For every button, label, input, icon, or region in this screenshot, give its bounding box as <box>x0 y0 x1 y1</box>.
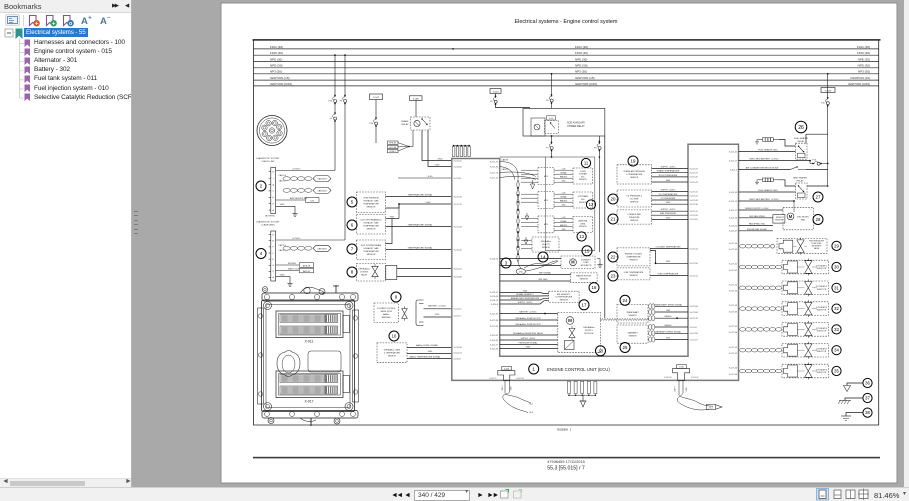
visctronic fan 28 <box>783 207 813 230</box>
ground node 36 <box>863 378 872 387</box>
panel list icon <box>6 15 20 26</box>
schematic frame <box>254 41 879 426</box>
sensor 6 SCR upstream temperature <box>347 220 357 230</box>
svg-text:POWER RELAY: POWER RELAY <box>567 125 585 128</box>
svg-text:X-017-46: X-017-46 <box>490 166 499 168</box>
svg-text:X-011-86: X-011-86 <box>454 276 463 278</box>
svg-text:X-017-42: X-017-42 <box>729 284 738 286</box>
socket 2 ground <box>276 205 295 207</box>
svg-text:X-017-46: X-017-46 <box>729 368 738 370</box>
ECU bottom bracket <box>262 411 358 419</box>
supply connector box X-042 <box>370 94 383 100</box>
svg-text:FLAP: FLAP <box>583 261 589 264</box>
svg-text:ENGINE FAN SIGNAL: ENGINE FAN SIGNAL <box>747 228 768 231</box>
svg-text:SENSOR: SENSOR <box>367 229 376 231</box>
svg-text:CAN H: CAN H <box>501 385 504 391</box>
SCR box right edge long drop <box>604 136 606 318</box>
wire X-080 to crank relay <box>415 100 417 117</box>
svg-text:EXHAUST GAS: EXHAUST GAS <box>364 200 379 203</box>
svg-text:X-026-12: X-026-12 <box>490 258 499 260</box>
X-016 service plug <box>502 366 512 370</box>
ECU block outline (U shape) <box>452 144 739 380</box>
svg-text:SENSOR: SENSOR <box>630 177 639 179</box>
svg-text:COOLANT CONTROL: COOLANT CONTROL <box>377 307 396 310</box>
injector cylinder 5 (34) <box>740 348 746 352</box>
svg-text:X-017-44: X-017-44 <box>690 248 699 250</box>
svg-text:X-017-07: X-017-07 <box>690 339 699 341</box>
svg-text:KCL-30: KCL-30 <box>389 147 397 149</box>
svg-text:FUEL TEMPERATURE: FUEL TEMPERATURE <box>624 271 644 274</box>
svg-text:K-30: K-30 <box>428 176 433 178</box>
connector box X-080 <box>410 96 423 101</box>
braid arrow terminal <box>707 404 716 409</box>
svg-text:X-011-41: X-011-41 <box>729 151 738 153</box>
NOx outer box and supply rail <box>500 156 546 158</box>
braid taps to sensors <box>521 169 538 171</box>
svg-text:BATTERY +12VDC: BATTERY +12VDC <box>519 310 537 313</box>
svg-text:CAN 2 L: CAN 2 L <box>279 249 286 252</box>
svg-text:HEATING): HEATING) <box>382 316 391 319</box>
svg-text:X-011-27: X-011-27 <box>490 344 499 346</box>
svg-text:WIF SIGNAL: WIF SIGNAL <box>539 271 552 274</box>
node circle 2 <box>256 181 266 191</box>
svg-text:ENGINE CONTROL UNIT (ECU): ENGINE CONTROL UNIT (ECU) <box>547 367 610 372</box>
svg-text:NPE (30): NPE (30) <box>270 57 282 61</box>
svg-text:TEMPERATURE: TEMPERATURE <box>363 203 379 206</box>
injector cylinder 6 (35) <box>740 369 746 373</box>
svg-text:ECU: ECU <box>544 224 549 226</box>
svg-text:(NH3): (NH3) <box>580 223 585 225</box>
svg-text:SENSOR: SENSOR <box>579 226 587 228</box>
sensor 20 oil pressure temp <box>608 194 618 204</box>
svg-text:X-017-40: X-017-40 <box>729 243 738 245</box>
svg-text:X-011-40: X-011-40 <box>454 347 463 349</box>
svg-text:AIR HUMIDITY: AIR HUMIDITY <box>557 293 571 296</box>
svg-text:NON-PREMIUM: NON-PREMIUM <box>363 198 378 200</box>
svg-text:16: 16 <box>592 285 597 290</box>
svg-text:NPE (30): NPE (30) <box>858 57 870 61</box>
svg-text:VALVE: VALVE <box>814 247 820 250</box>
svg-text:TEMPERATURE SIGNAL: TEMPERATURE SIGNAL <box>408 246 434 249</box>
svg-text:X-011-85: X-011-85 <box>454 166 463 168</box>
svg-text:SIGNAL: SIGNAL <box>560 171 566 174</box>
svg-text:X-017-63: X-017-63 <box>729 311 738 313</box>
relay output wires to ECU pins <box>422 130 452 161</box>
svg-text:AdBlue: AdBlue <box>383 313 389 316</box>
svg-text:AMBIENT AIR TEMPERATURE: AMBIENT AIR TEMPERATURE <box>511 297 540 300</box>
svg-text:UCM-2: UCM-2 <box>390 151 397 153</box>
svg-text:GND: GND <box>428 351 433 353</box>
svg-text:CRANKSHAFT: CRANKSHAFT <box>626 311 640 314</box>
svg-text:37: 37 <box>865 396 870 401</box>
svg-text:X-017-45: X-017-45 <box>690 177 699 179</box>
svg-text:IGNITION (15): IGNITION (15) <box>575 76 595 80</box>
svg-text:KPS-32: KPS-32 <box>389 143 397 145</box>
supply connector box X-048 <box>821 88 835 93</box>
svg-text:X-017-65: X-017-65 <box>729 353 738 355</box>
svg-text:GND: GND <box>390 216 395 218</box>
svg-text:DEF/AdBlue: DEF/AdBlue <box>358 268 370 271</box>
svg-text:X-026-42: X-026-42 <box>490 292 499 294</box>
svg-text:FAN SPEED GND: FAN SPEED GND <box>749 223 766 226</box>
svg-text:NOx: NOx <box>581 176 585 178</box>
svg-text:+: + <box>88 15 92 22</box>
svg-text:X-074-B: X-074-B <box>454 178 462 180</box>
svg-text:+12VDC: +12VDC <box>292 238 301 240</box>
bookmark icon green <box>47 16 57 28</box>
svg-text:SCR UPSTREAM/NOx: SCR UPSTREAM/NOx <box>360 219 382 222</box>
svg-text:M: M <box>568 318 572 323</box>
svg-text:TEMPERATURE: TEMPERATURE <box>363 250 379 253</box>
svg-text:VALVE: VALVE <box>361 274 368 277</box>
svg-text:X-017-19: X-017-19 <box>690 318 699 320</box>
svg-text:24: 24 <box>623 298 628 303</box>
svg-text:DEF/AdBlue REVERTING VALVE: DEF/AdBlue REVERTING VALVE <box>513 332 544 335</box>
svg-text:X-017-60: X-017-60 <box>729 249 738 251</box>
svg-text:X-017-98: X-017-98 <box>690 333 699 335</box>
svg-text:CAN BUS: CAN BUS <box>317 189 327 192</box>
svg-text:CHD: CHD <box>435 164 440 166</box>
svg-text:1: 1 <box>532 367 535 373</box>
svg-text:23: 23 <box>611 274 616 279</box>
svg-text:DEF/AdBlue PUMP MOTOR: DEF/AdBlue PUMP MOTOR <box>515 323 541 326</box>
svg-text:PRESSURE SIGNAL: PRESSURE SIGNAL <box>519 341 539 344</box>
title rule <box>253 39 881 40</box>
ground node 37 chassis <box>863 393 872 402</box>
svg-text:GND: GND <box>666 261 671 263</box>
injector cylinder 3 (32) <box>740 307 746 311</box>
node circle 14 with braid to supply module <box>538 252 548 262</box>
svg-text:Electrical systems - Engine co: Electrical systems - Engine control syst… <box>514 19 617 25</box>
svg-text:DEF/AdBlue: DEF/AdBlue <box>583 326 595 329</box>
svg-text:SUPPLY +5VDC: SUPPLY +5VDC <box>661 190 676 192</box>
ECU body <box>262 300 355 412</box>
svg-text:X-017-26: X-017-26 <box>690 215 699 217</box>
svg-text:9015E666 2: 9015E666 2 <box>557 429 572 432</box>
svg-text:FUEL HEATER: FUEL HEATER <box>794 137 809 140</box>
sensor 23 fuel temperature <box>608 271 618 281</box>
svg-text:X-017-47: X-017-47 <box>690 168 699 170</box>
svg-text:OIL TEMP: OIL TEMP <box>630 198 639 200</box>
wire page background <box>221 3 897 483</box>
svg-text:F101 (30): F101 (30) <box>575 45 588 49</box>
svg-text:AdBlue LEVEL SIGNAL: AdBlue LEVEL SIGNAL <box>416 344 439 347</box>
svg-text:UPSTREAM: UPSTREAM <box>578 195 588 198</box>
svg-text:X-017-46: X-017-46 <box>516 378 523 380</box>
svg-text:10: 10 <box>392 334 397 339</box>
svg-text:SENSOR: SENSOR <box>542 247 551 249</box>
svg-text:BATTERY +12VDC: BATTERY +12VDC <box>428 305 446 308</box>
ECU right flange <box>353 310 359 402</box>
svg-text:CAMSHAFT SPEED SIGNAL: CAMSHAFT SPEED SIGNAL <box>655 330 682 333</box>
svg-text:INJECTOR: INJECTOR <box>817 372 827 374</box>
svg-text:32: 32 <box>834 306 839 311</box>
svg-text:12: 12 <box>589 202 594 207</box>
svg-text:AIR CLEANER RESTRICTION SW: AIR CLEANER RESTRICTION SW <box>746 166 778 169</box>
svg-text:CAN LO: CAN LO <box>502 168 510 171</box>
svg-text:F100 (30): F100 (30) <box>270 51 283 55</box>
diagnostic plug near block2 <box>677 365 687 369</box>
svg-text:X-017-13: X-017-13 <box>490 172 499 174</box>
svg-text:F100 (30): F100 (30) <box>575 51 588 55</box>
svg-text:GND: GND <box>523 290 528 292</box>
svg-text:CMD FAN SPEED: CMD FAN SPEED <box>749 215 766 218</box>
sensor 19 intake air pressure <box>628 156 638 166</box>
svg-text:(CASE/LINE): (CASE/LINE) <box>262 223 275 226</box>
svg-text:RELAY: RELAY <box>798 140 805 143</box>
svg-text:SENSOR: SENSOR <box>367 207 376 209</box>
svg-text:TEMPERATURE: TEMPERATURE <box>363 225 379 228</box>
svg-text:RAIL PRESSURE: RAIL PRESSURE <box>660 212 677 215</box>
svg-text:FUEL HEATER GND: FUEL HEATER GND <box>758 189 778 192</box>
wire drop F101 right with fuse F10 <box>827 74 829 93</box>
svg-text:36: 36 <box>865 381 870 386</box>
svg-text:CAN HI: CAN HI <box>502 158 509 161</box>
svg-text:SIGNAL: SIGNAL <box>560 220 566 223</box>
bookmark tree <box>0 28 131 478</box>
svg-text:IGNITION (0/15): IGNITION (0/15) <box>575 82 597 86</box>
svg-text:M: M <box>789 214 793 219</box>
svg-text:X-017-62: X-017-62 <box>690 219 699 221</box>
svg-text:+: + <box>35 21 39 27</box>
svg-text:28: 28 <box>816 217 821 222</box>
svg-text:IGNITION (0/15): IGNITION (0/15) <box>270 82 292 86</box>
svg-text:TEMPERATURE SIGNAL: TEMPERATURE SIGNAL <box>408 193 434 196</box>
svg-text:X-017-49: X-017-49 <box>454 226 463 228</box>
svg-text:SENSOR: SENSOR <box>580 279 589 281</box>
sensor 16 water in fuel <box>571 273 598 282</box>
X-016 CAN wires down <box>504 380 506 392</box>
buzzer wire and box <box>276 264 299 266</box>
injector cylinder 1 (30) <box>740 265 746 269</box>
svg-text:X-017-14: X-017-14 <box>490 177 499 179</box>
svg-text:MODULE: MODULE <box>585 333 595 335</box>
svg-text:WIF GND: WIF GND <box>538 279 548 281</box>
svg-text:X-017-31: X-017-31 <box>690 191 699 193</box>
svg-text:X-017-90: X-017-90 <box>664 377 671 379</box>
svg-text:21: 21 <box>611 217 616 222</box>
svg-text:20: 20 <box>611 197 616 202</box>
svg-text:DOSING: DOSING <box>360 272 368 274</box>
svg-text:GND: GND <box>280 204 285 206</box>
ECU connector X-011 <box>276 311 343 338</box>
svg-text:NOx: NOx <box>581 199 585 201</box>
svg-text:DEF/AdBlue PUMP MOTOR: DEF/AdBlue PUMP MOTOR <box>515 317 541 320</box>
svg-text:EXHAUST GAS: EXHAUST GAS <box>364 247 379 250</box>
svg-text:CRANK: CRANK <box>401 120 409 123</box>
svg-text:INJECTOR: INJECTOR <box>817 268 827 270</box>
sensor 21 common rail pressure <box>608 214 618 224</box>
svg-text:AMMONIA: AMMONIA <box>579 220 588 223</box>
svg-text:X-017-3: X-017-3 <box>454 315 462 317</box>
sensor 7 SCR downstream temperature <box>347 244 357 254</box>
svg-text:& TEMPERATURE: & TEMPERATURE <box>555 296 572 299</box>
node circle 4 <box>256 249 266 259</box>
svg-text:SIGNAL: SIGNAL <box>560 195 566 198</box>
svg-text:–: – <box>107 14 111 21</box>
ground arrow under sensor column <box>532 180 534 184</box>
svg-text:X-011-33: X-011-33 <box>729 192 738 194</box>
svg-text:& TEMPERATURE: & TEMPERATURE <box>626 173 643 176</box>
supply connector box X-044 <box>490 89 501 94</box>
svg-text:SUPPLY +5VDC: SUPPLY +5VDC <box>518 302 533 304</box>
svg-text:NP3 (30): NP3 (30) <box>575 70 587 74</box>
svg-text:INJECTOR: INJECTOR <box>817 289 827 291</box>
ECU left flange <box>258 308 264 404</box>
DEF supply module 18 <box>558 312 601 352</box>
svg-text:FAN: FAN <box>801 219 805 222</box>
vertical CAN braid <box>517 180 518 262</box>
svg-text:X-017-37: X-017-37 <box>690 173 699 175</box>
sensor 17 air humidity temperature <box>549 291 580 302</box>
svg-text:(BUYERS): (BUYERS) <box>265 216 275 218</box>
svg-text:CHD: CHD <box>435 314 440 316</box>
+12VDC wire <box>276 170 335 172</box>
svg-text:X-017-11: X-017-11 <box>690 211 699 213</box>
svg-text:X-026-46: X-026-46 <box>490 296 499 298</box>
svg-text:X-017-8: X-017-8 <box>690 327 698 329</box>
svg-text:X-017-41: X-017-41 <box>729 264 738 266</box>
svg-text:X-044: X-044 <box>493 91 500 93</box>
svg-text:SENSOR SUPPLY +5VDC: SENSOR SUPPLY +5VDC <box>745 208 769 210</box>
svg-text:CAN BUS: CAN BUS <box>317 247 327 250</box>
round diagnostic connector <box>257 116 287 146</box>
svg-text:FUEL HEATER GND: FUEL HEATER GND <box>758 148 778 151</box>
node circle 3 and GND terminal <box>501 258 511 268</box>
svg-text:ABS SERVICE SW: ABS SERVICE SW <box>290 197 307 200</box>
ground node 38 earth <box>863 408 872 417</box>
svg-text:X-011-73: X-011-73 <box>454 352 463 354</box>
footer rule <box>253 457 880 459</box>
svg-text:SENSOR: SENSOR <box>630 201 639 203</box>
status bar <box>0 487 909 501</box>
svg-text:BOOST PRESSURE: BOOST PRESSURE <box>659 175 678 177</box>
ECU feet <box>268 418 274 424</box>
svg-text:+: + <box>52 21 56 27</box>
svg-text:X-017-28: X-017-28 <box>690 200 699 202</box>
canvas tick marks <box>134 211 138 234</box>
harness squiggle <box>600 318 649 320</box>
svg-text:CHD: CHD <box>666 310 671 312</box>
svg-text:NPD (30): NPD (30) <box>857 64 870 68</box>
svg-text:X-017-29: X-017-29 <box>490 161 499 163</box>
svg-text:WATER IN FUEL: WATER IN FUEL <box>576 275 592 278</box>
svg-text:X-011-57: X-011-57 <box>729 210 738 212</box>
svg-text:X-011-2: X-011-2 <box>730 169 738 171</box>
fuel heater relay 26 <box>795 121 807 133</box>
svg-text:SHIELD: SHIELD <box>664 316 672 318</box>
svg-text:INTAKE AIR PRESSURE: INTAKE AIR PRESSURE <box>624 170 646 173</box>
svg-text:CHD: CHD <box>666 338 671 340</box>
bookmarks panel <box>0 0 132 487</box>
svg-text:GND: GND <box>666 202 671 204</box>
svg-text:X-026-8: X-026-8 <box>491 304 499 306</box>
svg-text:OIL PRESSURE &: OIL PRESSURE & <box>626 195 642 197</box>
sensor 10 AdBlue lines temperature <box>389 331 399 341</box>
svg-text:26: 26 <box>798 125 804 131</box>
sensor 5 exhaust gas temperature <box>347 197 357 207</box>
fuse F23 on X-042 drop <box>375 100 377 144</box>
sensor 25 camshaft <box>617 325 648 343</box>
svg-text:38: 38 <box>865 410 870 415</box>
svg-text:X-011: X-011 <box>305 340 314 344</box>
svg-text:X-013-65: X-013-65 <box>729 225 738 227</box>
svg-text:STREAM: STREAM <box>579 173 587 176</box>
radio wire and box <box>276 270 299 272</box>
svg-text:DOWN: DOWN <box>580 171 586 173</box>
svg-text:VISCTRONIC: VISCTRONIC <box>797 217 810 219</box>
svg-text:SCR DOWNSTREAM: SCR DOWNSTREAM <box>361 244 381 247</box>
svg-text:X-017-38: X-017-38 <box>690 204 699 206</box>
svg-text:IGNITION (15): IGNITION (15) <box>270 76 290 80</box>
svg-text:SHIELD: SHIELD <box>664 325 672 327</box>
svg-text:NPE (30): NPE (30) <box>575 57 587 61</box>
ECU pictorial top bracket <box>262 293 358 301</box>
svg-text:X-011-43: X-011-43 <box>490 348 499 350</box>
svg-text:COMMON RAIL: COMMON RAIL <box>627 213 641 216</box>
SCR relay output drops with fuses <box>551 135 553 137</box>
svg-text:SIGNAL HUMIDITY: SIGNAL HUMIDITY <box>516 293 534 296</box>
svg-text:SENSOR: SENSOR <box>560 299 569 301</box>
svg-text:X-016: X-016 <box>504 368 510 370</box>
svg-text:X-011-27: X-011-27 <box>729 160 738 162</box>
svg-text:HEATING: HEATING <box>560 224 568 227</box>
svg-text:K-14: K-14 <box>549 118 553 120</box>
bookmark icon blue <box>64 16 74 28</box>
svg-text:X-017-12: X-017-12 <box>454 204 463 206</box>
svg-text:& TEMPERATURE: & TEMPERATURE <box>384 352 401 355</box>
svg-text:DEF/AdBlue: DEF/AdBlue <box>541 240 551 243</box>
svg-text:X-011-13: X-011-13 <box>729 201 738 203</box>
ECU center plate <box>308 351 341 372</box>
NOx sensor 12 <box>538 192 554 209</box>
svg-text:X-017: X-017 <box>304 400 313 404</box>
svg-text:HEATING: HEATING <box>560 199 568 202</box>
svg-text:X-011-67: X-011-67 <box>729 230 738 232</box>
svg-text:INJECTOR: INJECTOR <box>817 310 827 312</box>
svg-text:SUPPLY +5VDC: SUPPLY +5VDC <box>661 209 676 211</box>
svg-text:J: J <box>273 178 274 180</box>
svg-text:CAN H: CAN H <box>674 386 677 392</box>
svg-text:INJECTOR: INJECTOR <box>817 351 827 353</box>
svg-text:F100 (30): F100 (30) <box>857 51 870 55</box>
svg-text:NP3 (30): NP3 (30) <box>858 70 870 74</box>
svg-text:X-011-8: X-011-8 <box>454 358 462 360</box>
svg-text:NP3 (30): NP3 (30) <box>270 70 282 74</box>
svg-text:X-017-68: X-017-68 <box>690 306 699 308</box>
svg-text:A: A <box>81 16 88 27</box>
svg-text:25: 25 <box>623 345 628 350</box>
node circle 1 ECU <box>529 364 539 374</box>
svg-text:CHECK LINK: CHECK LINK <box>261 161 275 163</box>
svg-text:X-017-62: X-017-62 <box>729 291 738 293</box>
CAN twisted pair 2 <box>283 189 290 193</box>
svg-text:COOLANT TEMPERATURE: COOLANT TEMPERATURE <box>655 245 681 248</box>
+12VDC wire socket 4 <box>276 239 345 241</box>
svg-text:X-011-62: X-011-62 <box>490 335 499 337</box>
svg-text:SENSOR: SENSOR <box>579 179 587 181</box>
svg-text:SENSOR: SENSOR <box>388 356 397 358</box>
svg-text:OIL PRESSURE: OIL PRESSURE <box>661 198 676 200</box>
svg-text:SUPPLY +5VDC: SUPPLY +5VDC <box>661 167 676 169</box>
svg-text:SENSOR: SENSOR <box>775 220 783 222</box>
socket bar X-614 <box>271 168 276 214</box>
svg-text:47936459 17/11/2015: 47936459 17/11/2015 <box>547 459 585 464</box>
metering valve 29 <box>740 244 746 248</box>
svg-text:FUEL TEMPERATURE: FUEL TEMPERATURE <box>658 272 679 275</box>
svg-text:22: 22 <box>611 255 616 260</box>
svg-text:CRANKSHAFT SPEED SIGNAL: CRANKSHAFT SPEED SIGNAL <box>654 303 684 306</box>
